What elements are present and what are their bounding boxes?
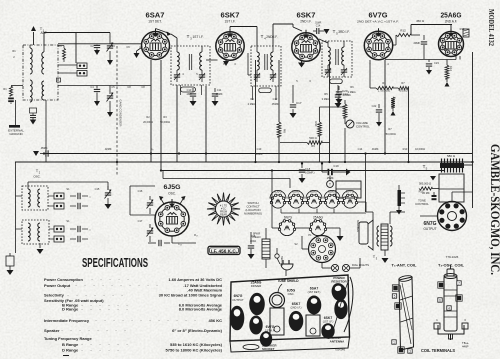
svg-text:3 MEG.: 3 MEG. — [322, 97, 331, 101]
wire pair below T3 — [180, 85, 182, 95]
svg-text:Selectivity: Selectivity — [44, 293, 65, 298]
svg-text:20MF.: 20MF. — [413, 41, 420, 45]
resistor R14 x=447 vertical — [446, 60, 448, 66]
capacitor C22 coupling — [423, 50, 425, 59]
tube V6 6J5G oscillator — [155, 199, 189, 236]
svg-text:450 Ω: 450 Ω — [416, 19, 425, 23]
power resistor T6 plug-in comb (right) — [440, 163, 464, 168]
osc gang capacitor C13 — [107, 186, 109, 190]
ground arrow near T5 — [433, 171, 435, 176]
resistor R13 vertical x=393 with arrow — [392, 88, 394, 97]
wire 25A6G top B+ y=24 — [411, 24, 452, 26]
svg-text:R11: R11 — [314, 121, 318, 127]
svg-text:1ST DET.: 1ST DET. — [148, 20, 162, 24]
IF frequency box I.F. 456 K.C. — [208, 246, 240, 254]
arrows at 6J5G top — [159, 196, 164, 200]
terminal tag on T1 box — [57, 78, 61, 82]
spec footer dash — [63, 355, 69, 357]
capacitor C26 20MF electrolytic — [433, 192, 435, 195]
chassis tube 25A6G blob — [249, 293, 265, 315]
svg-text:1,750,000Ω: 1,750,000Ω — [378, 90, 391, 93]
capacitor C21 .00025MF with ground — [337, 85, 339, 93]
wire y=43.8 to 6SA7 — [58, 43, 142, 45]
coil T2 pictorial cylinder — [444, 276, 457, 331]
ground under T3 — [384, 250, 386, 256]
svg-text:OSC.: OSC. — [33, 175, 41, 179]
chassis tube lower-left blob — [249, 316, 262, 335]
svg-text:GAMBLE-SKOGMO, INC.: GAMBLE-SKOGMO, INC. — [488, 144, 500, 275]
wire T1 to switch — [58, 64, 77, 66]
tube V5 25A6G 2nd AF — [439, 29, 464, 57]
svg-text:T₂-OSC. COIL: T₂-OSC. COIL — [438, 263, 465, 268]
svg-text:C23: C23 — [434, 61, 439, 65]
svg-text:R4: R4 — [250, 97, 254, 101]
svg-text:6SK7: 6SK7 — [297, 11, 316, 20]
svg-text:535 to 1610 KC (Kilocycles): 535 to 1610 KC (Kilocycles) — [170, 342, 223, 347]
svg-text:25A6G: 25A6G — [313, 216, 323, 220]
svg-text:Power Consumption: Power Consumption — [44, 277, 83, 282]
svg-text:R6: R6 — [382, 81, 386, 85]
svg-text:C13: C13 — [257, 147, 262, 151]
svg-text:GROUND: GROUND — [9, 132, 23, 136]
svg-text:2ND I.F.: 2ND I.F. — [266, 35, 278, 39]
svg-text:I.F. 456 K.C.: I.F. 456 K.C. — [211, 249, 237, 254]
svg-text:1: 1 — [393, 341, 395, 345]
svg-text:C10: C10 — [187, 88, 192, 92]
coil T2 terminal tags — [439, 283, 443, 287]
svg-text:::: :: — [89, 195, 91, 199]
svg-text:C21: C21 — [443, 47, 448, 51]
svg-text:5750 to 18000 KC (Kilocycles): 5750 to 18000 KC (Kilocycles) — [166, 348, 223, 353]
heater socket 6SK7 x=332 — [325, 195, 338, 208]
wire x=279 down with resistor R8 — [278, 60, 280, 122]
tube V1 6SA7 1st det — [142, 29, 170, 60]
svg-text:OUTPUT: OUTPUT — [232, 298, 244, 302]
wire x=301 down — [301, 61, 303, 63]
svg-text:8.0 Microvolts Average: 8.0 Microvolts Average — [179, 307, 223, 312]
wire 6SK7 right pin to T4 — [247, 53, 249, 75]
svg-text:.01MF.: .01MF. — [314, 22, 322, 25]
svg-text:C7: C7 — [139, 45, 143, 49]
band switch S1b contacts — [54, 193, 64, 199]
coil T1 terminal tags — [393, 286, 397, 290]
trimmer C4 — [109, 33, 111, 45]
resistor R1 to external ground — [11, 85, 23, 87]
capacitor C20 .005MF — [338, 86, 340, 90]
svg-text:6SA7: 6SA7 — [146, 11, 165, 20]
svg-text:S1: S1 — [66, 219, 70, 223]
resistor R11 vertical x=319 — [319, 107, 321, 122]
svg-text:6SK7: 6SK7 — [221, 11, 240, 20]
svg-text:.05MF.: .05MF. — [40, 146, 48, 150]
octal socket bottom view — [309, 236, 336, 263]
svg-text:R3: R3 — [163, 115, 167, 119]
svg-text:D Range: D Range — [62, 307, 79, 312]
wire x=46 down to bus — [45, 100, 47, 162]
svg-text:7: 7 — [458, 282, 460, 286]
capacitor C23 .01MF near 25A6G — [428, 60, 430, 63]
svg-text:20 MF.: 20 MF. — [422, 191, 430, 195]
svg-text:C12: C12 — [273, 97, 278, 101]
svg-text:SOCKET: SOCKET — [262, 347, 275, 351]
transformer T4 (2ND I.F.) — [251, 46, 281, 86]
svg-text:C14: C14 — [358, 147, 363, 151]
T2 oscillator coil lower box — [22, 220, 49, 244]
svg-text:.05MF.: .05MF. — [255, 152, 263, 156]
gang condenser dashed link — [116, 46, 118, 176]
coil T1 pictorial cylinder — [399, 277, 414, 350]
wire 25A6G plate down x=460 — [459, 56, 461, 60]
horizontal wire y=107 volume feed — [320, 106, 346, 108]
loop below T4 — [259, 88, 272, 93]
svg-text:Tuning Frequency Range: Tuning Frequency Range — [44, 336, 92, 341]
padder capacitors right of switch — [70, 195, 76, 197]
volume control box — [336, 181, 361, 198]
svg-text:C₉: C₉ — [151, 147, 154, 151]
svg-text:1ST I.F.: 1ST I.F. — [193, 35, 204, 39]
svg-text:(1ST I.F.): (1ST I.F.) — [323, 319, 334, 323]
tube V2 6SK7 1st IF — [216, 29, 244, 60]
svg-text:S1: S1 — [66, 187, 70, 191]
wires osc section — [15, 162, 17, 253]
wire x=161 down — [160, 60, 162, 171]
svg-text:R2: R2 — [146, 115, 150, 119]
resistor R2 right of T1 box — [58, 45, 64, 47]
resistor R10 and volume control — [344, 100, 346, 104]
loop below T3 — [181, 87, 196, 92]
AVC arrow under 6SA7 — [137, 48, 142, 52]
svg-text:ANTENNA: ANTENNA — [330, 340, 345, 344]
heater socket 6SK7 x=314 — [307, 195, 320, 208]
tube V3 6SK7 2nd IF — [292, 30, 320, 61]
wire heater row2 — [272, 227, 281, 229]
capacitor C14 .01MF at 6SK7-2 screen — [313, 30, 316, 32]
wire 6J5G connections — [130, 214, 155, 216]
wires 6N7G — [420, 215, 437, 217]
svg-text:C18: C18 — [305, 167, 311, 171]
speaker field coil SPKR FIELD — [262, 239, 270, 259]
wire 6SA7 left pin down — [150, 60, 152, 162]
wire heater feed y=178.5 — [163, 178, 290, 180]
svg-text:C1: C1 — [58, 44, 62, 48]
svg-text:2 MEG.: 2 MEG. — [348, 90, 357, 94]
svg-text:6V7G: 6V7G — [369, 11, 388, 20]
coil T2 base with feet — [438, 325, 464, 334]
heater socket 6N7G row2 — [279, 220, 294, 235]
svg-text:P1: P1 — [308, 233, 312, 237]
capacitor C10 near 6SA7 bypass — [192, 88, 194, 92]
AC power plug — [282, 263, 292, 265]
T1 secondary winding upper — [42, 52, 44, 74]
svg-text:Power Output: Power Output — [44, 283, 71, 288]
svg-text:C4: C4 — [90, 85, 94, 89]
svg-text:SPEAKER: SPEAKER — [356, 220, 360, 232]
svg-text:3: 3 — [409, 350, 411, 354]
transformer T5 (3RD I.F.) — [322, 41, 352, 77]
capacitor C9 AVC with ground — [43, 149, 45, 154]
capacitor C17 with ground — [292, 85, 294, 103]
svg-text:OUTPUT: OUTPUT — [423, 227, 436, 231]
svg-text:R5: R5 — [324, 92, 328, 96]
svg-text:6″ or 8″ (Electro-Dynamic): 6″ or 8″ (Electro-Dynamic) — [172, 328, 223, 333]
chassis IF can rectangle left — [270, 308, 284, 335]
svg-text:OSC.: OSC. — [288, 292, 295, 296]
capacitor C25 right of IF box — [250, 240, 252, 244]
svg-text:.02MF.: .02MF. — [104, 147, 112, 151]
svg-text:R9: R9 — [311, 144, 315, 148]
trimmer C6 lower — [109, 86, 111, 95]
resistor R9 500ohm on riser bus — [280, 142, 307, 144]
svg-text:R12: R12 — [460, 27, 465, 31]
wire right B+ vertical x=472 — [472, 52, 474, 208]
svg-text:COIL TERMINALS: COIL TERMINALS — [421, 348, 455, 353]
svg-text:C17: C17 — [138, 219, 143, 223]
resistor R12 at 25A6G grid — [396, 33, 411, 36]
chassis antenna wire curve — [344, 277, 353, 332]
svg-text:6V7G: 6V7G — [266, 325, 275, 329]
svg-text:R7: R7 — [401, 81, 405, 85]
resistor R15 horizontal left of housing — [419, 187, 432, 190]
svg-text:2 MEG.: 2 MEG. — [248, 102, 257, 106]
junction dots — [150, 152, 152, 154]
svg-text:SPECIFICATIONS: SPECIFICATIONS — [82, 256, 148, 270]
osc trimmer C14 — [149, 196, 151, 200]
svg-text:C19: C19 — [333, 164, 339, 168]
wire x=230 cathode down — [225, 59, 227, 61]
wire socket row risers — [271, 171, 273, 203]
speaker outline — [359, 222, 368, 244]
wire bus y=162 — [15, 161, 472, 163]
wire x=179 down — [176, 85, 178, 162]
svg-text:R18: R18 — [251, 234, 256, 238]
svg-text:CONTROL: CONTROL — [415, 202, 429, 206]
band switch S1c contacts — [54, 226, 64, 232]
svg-text:R8: R8 — [283, 129, 287, 133]
svg-text:1.60 Amperes at 36 Volts DC: 1.60 Amperes at 36 Volts DC — [168, 277, 222, 282]
transformer T3 output — [381, 224, 388, 250]
svg-text:(1ST DET.): (1ST DET.) — [308, 290, 321, 294]
gang condenser C5 lower — [96, 86, 98, 89]
svg-text:R6: R6 — [350, 85, 354, 89]
svg-text:C2: C2 — [90, 44, 94, 48]
svg-text:.05MF.: .05MF. — [215, 92, 223, 96]
heater socket 6J5G x=278 — [271, 195, 284, 208]
svg-text:Intermediate Frequency: Intermediate Frequency — [44, 318, 90, 323]
T1 primary winding upper — [30, 48, 32, 74]
svg-text:10,000Ω: 10,000Ω — [415, 147, 425, 151]
svg-text:25A6G: 25A6G — [441, 11, 462, 20]
svg-text:DRIVER: DRIVER — [251, 284, 262, 288]
svg-text:T: T — [329, 183, 331, 187]
wire bus y=170 — [161, 170, 445, 172]
svg-text:DIAL LIGHTS: DIAL LIGHTS — [352, 263, 369, 267]
svg-text:TUBE SHIELD: TUBE SHIELD — [277, 279, 299, 283]
svg-text:B Range: B Range — [62, 342, 79, 347]
wire osc top y=186 — [28, 181, 108, 183]
svg-text:50,000Ω: 50,000Ω — [160, 120, 170, 124]
svg-text:(.05MF.): (.05MF.) — [305, 171, 315, 175]
wire 6V7G plate down x=385 — [384, 60, 386, 154]
heater socket 25A6G row2 — [310, 220, 325, 235]
external ground symbol — [15, 100, 17, 125]
wire 6SK7-2 plate to T5 primary — [319, 39, 328, 43]
svg-text:40,000Ω: 40,000Ω — [398, 90, 407, 93]
svg-text:759-546: 759-546 — [335, 348, 346, 352]
svg-text:C5: C5 — [111, 85, 115, 89]
svg-text:C8: C8 — [127, 85, 131, 89]
wires speaker to circuit — [372, 212, 374, 222]
wire row1 to row2 left — [271, 202, 273, 228]
capacitor C22 .005MF — [378, 104, 380, 108]
svg-text:C15: C15 — [95, 187, 100, 191]
antenna terminal ANT — [33, 32, 35, 45]
plug-in resistor housing box — [439, 174, 464, 202]
svg-text:T₁-ANT. COIL: T₁-ANT. COIL — [392, 263, 418, 268]
svg-text:C₂₀: C₂₀ — [178, 242, 182, 246]
svg-text:500 Ω: 500 Ω — [309, 136, 317, 140]
wire x=330 down — [329, 62, 331, 162]
svg-text:MODEL 4132: MODEL 4132 — [487, 9, 495, 46]
svg-text:C17: C17 — [296, 101, 302, 105]
svg-text:.01MF.: .01MF. — [371, 147, 379, 151]
wire y=59 right section — [385, 59, 456, 61]
svg-text:R1: R1 — [12, 49, 16, 53]
svg-text:5: 5 — [394, 295, 396, 299]
wire top bus from T1 — [44, 32, 110, 34]
capacitor C18 .05MF with ground — [301, 164, 303, 169]
phono jack circle — [327, 181, 334, 188]
svg-text:6: 6 — [439, 299, 441, 303]
dial lights — [331, 264, 338, 271]
wire 6SK7 left pin to T3 secondary — [206, 59, 218, 61]
svg-text:R14: R14 — [449, 66, 453, 71]
svg-text:(2ND I.F.): (2ND I.F.) — [290, 305, 301, 309]
svg-text:R13: R13 — [403, 147, 408, 151]
vertical tapped resistor R16 — [398, 190, 402, 206]
capacitor C21 20MF electrolytic — [423, 35, 425, 40]
transformer T3 (1ST I.F.) — [171, 46, 210, 85]
loop below T5 — [330, 79, 343, 84]
wire B- bus y=153 — [44, 153, 472, 155]
wire heater bottom bus y=213 — [281, 212, 366, 214]
svg-text:6J5G: 6J5G — [164, 184, 181, 191]
band switch S1a contacts — [77, 63, 87, 69]
wire comb to right bus — [464, 164, 473, 166]
svg-text:2ND I.F.: 2ND I.F. — [300, 20, 312, 24]
svg-text:585,000 Ω: 585,000 Ω — [419, 182, 431, 186]
T2 oscillator coil upper box — [22, 186, 48, 210]
chassis outline top view — [230, 275, 350, 341]
wire 6V7G to 25A6G coupling — [393, 44, 397, 46]
on-off switch S2 — [275, 254, 279, 258]
svg-text:NUMBERING): NUMBERING) — [244, 212, 262, 216]
chassis IF can rectangle right — [306, 315, 320, 336]
capacitor C19 .25MF horizontal — [322, 171, 327, 173]
wire T4 secondary to 6SK7-2 grid — [272, 24, 274, 46]
chassis tube shield circle — [270, 293, 285, 308]
svg-text:456 KC: 456 KC — [208, 318, 222, 323]
capacitor C16 osc grid — [158, 240, 160, 246]
svg-text:1ST I.F.: 1ST I.F. — [225, 20, 236, 24]
svg-text:2ND A.F.: 2ND A.F. — [445, 20, 458, 24]
wire x=206 down — [205, 86, 207, 162]
svg-text:CONTROL: CONTROL — [356, 125, 370, 129]
wire heater string row1 — [270, 201, 271, 203]
tube V4 6V7G 2nd det AVC 1st AF — [364, 28, 392, 59]
wire horizontal y=85.5 left — [58, 85, 151, 87]
svg-text:C6: C6 — [126, 45, 130, 49]
wave band switch sunburst dial — [207, 193, 240, 226]
T1 windings lower — [30, 80, 32, 102]
svg-text:C22: C22 — [372, 104, 377, 108]
svg-text:C11: C11 — [217, 88, 222, 92]
capacitor C11 — [214, 88, 216, 92]
svg-text:S2: S2 — [294, 242, 298, 246]
svg-text:4: 4 — [448, 307, 450, 311]
svg-text:R1: R1 — [3, 87, 7, 91]
wire dial light leads — [321, 263, 323, 269]
capacitor C2 .05MF to ground arrow — [30, 108, 37, 113]
heater socket 6V7G x=350 — [343, 195, 356, 208]
svg-text:400Ω: 400Ω — [250, 239, 256, 243]
speaker socket oval — [243, 344, 259, 349]
svg-text:.05MF.: .05MF. — [271, 102, 279, 106]
svg-text:RESISTOR: RESISTOR — [331, 279, 347, 283]
svg-text:2ND DET.+A.V.C.+1ST A.F.: 2ND DET.+A.V.C.+1ST A.F. — [357, 20, 399, 24]
svg-text:D Range: D Range — [62, 348, 79, 353]
svg-text:6SK7: 6SK7 — [328, 190, 336, 194]
wire 6SK7 plate to T4 — [229, 27, 231, 29]
svg-text:::: :: — [89, 228, 91, 232]
svg-text:R₁₇: R₁₇ — [194, 233, 198, 237]
svg-text:20,000Ω: 20,000Ω — [143, 120, 153, 124]
svg-text:3RD I.F.: 3RD I.F. — [338, 30, 350, 34]
svg-text:GANG CONDENSER: GANG CONDENSER — [119, 100, 123, 127]
wire pair below T4 — [252, 86, 254, 100]
svg-text:779-1026: 779-1026 — [446, 255, 459, 259]
svg-text:Speaker: Speaker — [44, 328, 60, 333]
wire plug risers — [285, 270, 287, 276]
wire x=255 down — [255, 60, 257, 162]
svg-text:C14: C14 — [316, 25, 321, 28]
tube V7 6N7G output — [438, 202, 467, 231]
svg-text:446P: 446P — [462, 345, 469, 349]
svg-text:.1MF.: .1MF. — [186, 92, 193, 96]
svg-text:6SK7: 6SK7 — [310, 190, 318, 194]
gang condenser section C3 (ant) — [96, 43, 98, 46]
svg-text:OSC.: OSC. — [168, 192, 176, 196]
svg-text:C3: C3 — [111, 44, 115, 48]
svg-text:580 Ω: 580 Ω — [447, 154, 456, 158]
transformer T1 ant coil shield box — [23, 45, 58, 100]
hatched capacitor right of 25A6G — [463, 29, 469, 37]
svg-text:REAR: REAR — [220, 214, 227, 217]
svg-text:C16: C16 — [138, 189, 143, 193]
svg-text:6SA7: 6SA7 — [292, 190, 300, 194]
resistor R15 grid leak — [9, 253, 11, 256]
ground arrow under osc coil — [39, 243, 41, 248]
heater socket 6SA7 x=296 — [289, 195, 302, 208]
wire 6SA7 plate to T3 with arrow — [156, 29, 169, 34]
svg-text:6N7G: 6N7G — [284, 216, 293, 220]
chassis tube 6N7G blob — [230, 306, 245, 331]
svg-text:250,000Ω: 250,000Ω — [384, 132, 395, 136]
svg-text:C8: C8 — [141, 85, 145, 89]
svg-text:R12: R12 — [400, 29, 406, 33]
wire vertical x=408.5 down to bus — [408, 88, 410, 162]
wire grid bus y=88 with resistors R9 R10 — [370, 87, 376, 89]
osc padder C15 — [149, 224, 151, 228]
